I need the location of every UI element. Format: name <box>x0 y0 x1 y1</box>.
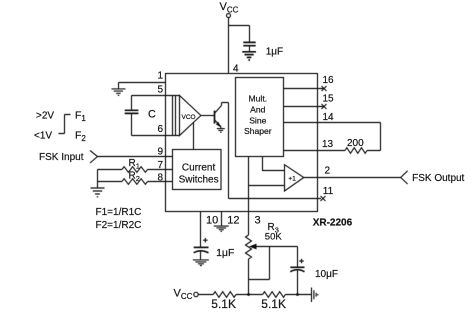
svg-text:F2: F2 <box>75 129 86 143</box>
svg-text:<1V: <1V <box>34 130 52 141</box>
svg-text:3: 3 <box>255 215 261 227</box>
svg-text:And: And <box>250 105 266 115</box>
svg-text:5.1K: 5.1K <box>261 297 286 311</box>
svg-text:6: 6 <box>157 124 163 135</box>
svg-text:>2V: >2V <box>36 110 54 121</box>
svg-text:F2=1/R2C: F2=1/R2C <box>96 220 142 231</box>
svg-text:7: 7 <box>157 160 163 171</box>
svg-text:13: 13 <box>322 139 334 150</box>
svg-text:+1: +1 <box>288 176 296 183</box>
svg-text:F1: F1 <box>75 109 86 123</box>
svg-text:1μF: 1μF <box>216 247 234 259</box>
svg-text:Current: Current <box>182 162 216 173</box>
svg-text:14: 14 <box>323 112 335 123</box>
svg-text:9: 9 <box>157 146 163 157</box>
svg-text:R2: R2 <box>129 170 140 183</box>
svg-text:VCC: VCC <box>174 288 193 302</box>
svg-text:10: 10 <box>206 214 218 226</box>
svg-text:VCC: VCC <box>220 1 239 15</box>
svg-text:12: 12 <box>227 214 239 226</box>
svg-text:5.1K: 5.1K <box>211 297 236 311</box>
svg-text:2: 2 <box>325 166 331 177</box>
svg-text:F1=1/R1C: F1=1/R1C <box>96 207 142 218</box>
svg-text:200: 200 <box>347 138 364 149</box>
svg-text:10μF: 10μF <box>315 269 338 280</box>
svg-text:15: 15 <box>323 94 335 105</box>
svg-text:C: C <box>148 109 156 121</box>
svg-text:Switches: Switches <box>179 174 219 185</box>
svg-text:FSK Output: FSK Output <box>412 173 464 184</box>
svg-text:8: 8 <box>157 173 163 184</box>
svg-text:XR-2206: XR-2206 <box>313 217 353 228</box>
svg-text:R1: R1 <box>129 158 140 171</box>
svg-text:4: 4 <box>233 64 239 75</box>
svg-text:FSK Input: FSK Input <box>39 152 84 163</box>
svg-text:11: 11 <box>323 186 334 197</box>
svg-text:5: 5 <box>157 84 163 95</box>
svg-text:Mult.: Mult. <box>248 94 267 104</box>
svg-text:VCO: VCO <box>182 114 196 121</box>
svg-text:16: 16 <box>323 75 335 86</box>
svg-text:Shaper: Shaper <box>244 126 272 136</box>
svg-text:1μF: 1μF <box>266 46 283 57</box>
svg-text:50K: 50K <box>265 232 283 243</box>
svg-text:1: 1 <box>157 71 163 82</box>
svg-text:Sine: Sine <box>249 115 266 125</box>
